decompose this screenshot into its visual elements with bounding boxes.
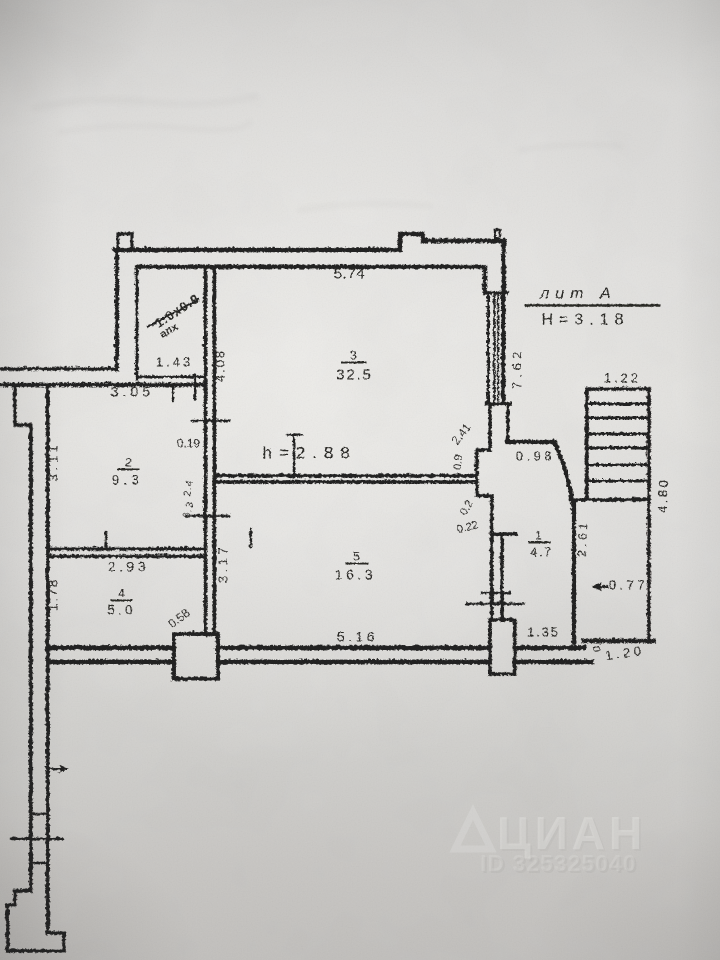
- svg-text:0.19: 0.19: [176, 436, 200, 450]
- tick on left wall lower: [30, 861, 47, 863]
- wall room2/room4 divider (double): [47, 546, 204, 549]
- wall bottom inner line: [47, 659, 591, 664]
- wall divider loggia/room3 and room2/room5 (double): [203, 266, 207, 634]
- wall exterior upper-left line: [0, 366, 116, 370]
- wall hall top: [507, 439, 554, 443]
- wall hall right vertical: [571, 500, 575, 642]
- stairs treads: [586, 403, 648, 480]
- tick dim 1.43 right: [193, 374, 195, 399]
- svg-text:лит А: лит А: [539, 285, 616, 302]
- door block bottom of hall: [489, 619, 514, 673]
- watermark CIAN text: [480, 807, 648, 878]
- svg-text:5.0: 5.0: [107, 601, 135, 617]
- tick door hall short: [481, 591, 509, 593]
- room 2 underline: [117, 468, 139, 470]
- svg-text:3.05: 3.05: [110, 383, 153, 399]
- wall entry right below sill: [505, 404, 508, 440]
- svg-text:5.74: 5.74: [333, 265, 364, 282]
- stairs outline: [586, 388, 648, 641]
- wall tab top-left: [117, 233, 131, 248]
- stairs bottom landing line: [570, 497, 648, 501]
- wall exterior lower line: [0, 382, 204, 386]
- tick dim 2.93 right end: [249, 528, 251, 546]
- wall left outer jog: [14, 384, 30, 424]
- arrow entrance left: [49, 767, 62, 770]
- wall bottom outer line: [47, 645, 583, 650]
- svg-text:1.35: 1.35: [527, 624, 560, 639]
- arrowheads (filled, roughened): [58, 582, 601, 773]
- svg-text:4.7: 4.7: [530, 544, 553, 559]
- wall landing bottom: [583, 638, 653, 642]
- svg-text:ID 325325040: ID 325325040: [480, 850, 637, 876]
- wall inner left of loggia: [134, 266, 137, 378]
- wall outer left of loggia: [114, 249, 118, 369]
- tick dim vertical in room 3: [292, 436, 294, 477]
- window top cap room3: [484, 290, 506, 293]
- svg-text:1: 1: [535, 528, 542, 542]
- svg-text:16.3: 16.3: [334, 566, 375, 582]
- svg-text:5.16: 5.16: [336, 628, 377, 644]
- tick door room2: [191, 419, 228, 421]
- svg-text:3.17: 3.17: [215, 543, 230, 582]
- break line on left wall: [10, 837, 62, 839]
- svg-text:3: 3: [350, 348, 357, 362]
- pillar block bottom of room4: [173, 633, 217, 678]
- tick dim separator below loggia: [171, 384, 173, 400]
- window outer line: [500, 292, 504, 402]
- faint pencil smudges top area: [35, 96, 620, 210]
- arrowhead dim 0.77: [591, 582, 601, 591]
- svg-text:0.1: 0.1: [591, 636, 603, 651]
- svg-text:0.98: 0.98: [515, 448, 554, 463]
- window sill: [485, 401, 509, 404]
- window glazing lines: [493, 293, 495, 401]
- wall steps bottom-left: [7, 874, 63, 950]
- arrow dim 0.77: [594, 585, 607, 587]
- wall entry jog left: [476, 404, 515, 533]
- wall outer right upper: [501, 240, 506, 292]
- svg-text:2.61: 2.61: [574, 519, 590, 557]
- svg-text:4.80: 4.80: [654, 477, 670, 513]
- tick door room2 lower: [185, 514, 228, 516]
- wall room3/room5 divider (double): [215, 473, 474, 477]
- svg-text:32.5: 32.5: [336, 366, 372, 383]
- room 5 underline: [345, 562, 368, 564]
- svg-text:3.11: 3.11: [45, 441, 60, 481]
- wall loggia bottom inner line: [136, 375, 204, 378]
- svg-text:9.3: 9.3: [111, 471, 142, 487]
- svg-text:1.22: 1.22: [603, 370, 640, 385]
- room 4 underline: [110, 599, 132, 601]
- window inner line: [486, 293, 489, 402]
- room 3 number underline: [341, 361, 366, 363]
- svg-text:h=2.88: h=2.88: [262, 443, 356, 462]
- svg-text:4.08: 4.08: [212, 348, 227, 381]
- loggia label diagonal stroke: [147, 299, 197, 326]
- tick serif: [287, 433, 301, 435]
- svg-text:5: 5: [353, 549, 360, 563]
- litera underline: [524, 304, 660, 307]
- svg-text:2: 2: [125, 455, 132, 469]
- svg-text:2.93: 2.93: [107, 558, 148, 574]
- tick door hall long: [466, 602, 523, 604]
- svg-text:0.77: 0.77: [608, 577, 647, 592]
- svg-text:7.62: 7.62: [509, 347, 524, 388]
- tick dim 2.93: [104, 531, 106, 548]
- svg-text:4: 4: [118, 586, 125, 600]
- tick on left wall: [30, 812, 47, 814]
- svg-text:Н=3.18: Н=3.18: [541, 311, 629, 328]
- wall inner top of room 3: [136, 266, 484, 292]
- wall outer top (with notch): [114, 233, 503, 249]
- wall hall right diagonal: [554, 442, 572, 502]
- tick flag top-right: [494, 229, 499, 239]
- arrowhead entrance: [58, 764, 68, 773]
- wall left outer vertical inner: [28, 424, 32, 874]
- wall hall left (double): [489, 533, 492, 619]
- svg-text:0.9: 0.9: [451, 454, 464, 470]
- watermark cian logo triangle: [455, 812, 491, 849]
- room 1 underline: [528, 541, 550, 543]
- svg-text:1.78: 1.78: [45, 577, 60, 610]
- svg-text:1.43: 1.43: [155, 354, 192, 369]
- wall left outer vertical face: [45, 384, 49, 932]
